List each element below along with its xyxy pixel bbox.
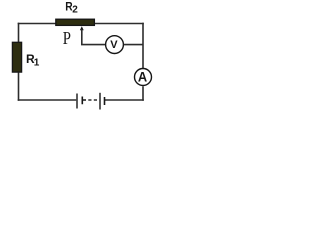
voltmeter V circle: [106, 36, 124, 54]
wire: voltmeter to right vertical wire: [124, 44, 143, 46]
wire: bottom-right corner to battery right terminal: [105, 99, 144, 101]
svg-text:A: A: [138, 68, 147, 84]
resistor R2 (horizontal rheostat box): [56, 19, 95, 25]
ammeter A circle: [135, 69, 152, 86]
svg-text:V: V: [110, 39, 118, 51]
wire: ammeter bottom to bottom-right corner: [142, 86, 144, 101]
wiper arrow at point P into R2: [80, 26, 84, 30]
wire: R2 right terminal to top-right corner: [95, 23, 144, 25]
svg-text:P: P: [63, 28, 71, 48]
resistor R1 (vertical box): [12, 42, 21, 72]
wire: right vertical from top corner down to ammeter: [142, 23, 144, 68]
battery cell 2 short plate: [104, 97, 106, 105]
svg-text:2: 2: [72, 4, 78, 15]
wire: left vertical from top corner down to R1 top: [18, 23, 20, 43]
wire: battery left terminal to bottom-left corner: [18, 99, 76, 101]
battery cell 1 short plate with stub: [82, 97, 86, 105]
battery cell 2 long plate: [99, 93, 101, 110]
wire: left vertical from R1 bottom to bottom-left corner: [18, 73, 20, 101]
wire: wiper stem down then right to voltmeter: [82, 29, 105, 45]
battery cell 1 long plate: [76, 94, 78, 109]
svg-text:1: 1: [34, 58, 40, 69]
battery dashes (omitted cells): [88, 99, 97, 101]
wire: top-left horizontal from left corner to R2 left terminal: [18, 23, 56, 25]
